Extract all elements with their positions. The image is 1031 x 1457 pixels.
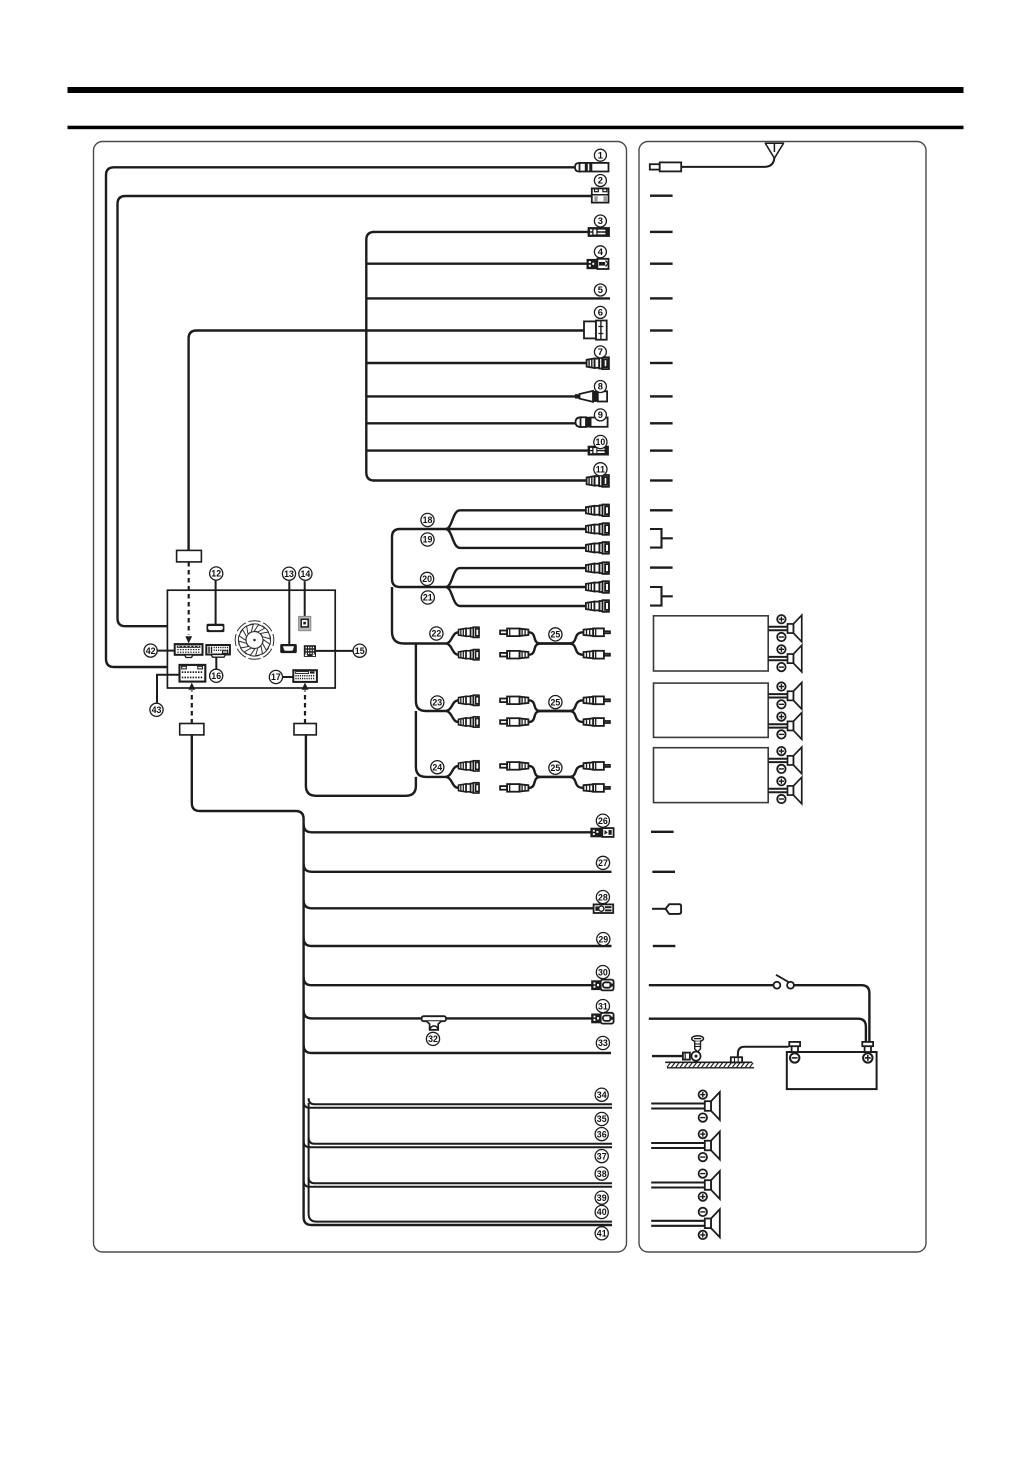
wire 9 (366, 422, 580, 424)
svg-text:15: 15 (355, 646, 365, 656)
connector 22 upper (459, 627, 479, 637)
lead mark for item 26 (651, 831, 674, 833)
label 22 (430, 627, 443, 640)
label 7 (594, 346, 606, 358)
connector 25 female upper (500, 697, 528, 705)
connector 14 (299, 581, 311, 631)
svg-text:22: 22 (432, 629, 442, 639)
svg-text:28: 28 (598, 892, 608, 902)
svg-text:36: 36 (597, 1129, 607, 1139)
speaker terminal top (699, 1169, 707, 1177)
connector 25 male lower (584, 651, 610, 659)
connector 25 male upper (584, 696, 610, 704)
svg-text:13: 13 (284, 569, 294, 579)
svg-text:2: 2 (598, 175, 603, 186)
wire 27 (304, 864, 612, 872)
wire 1 (antenna lead) (106, 167, 609, 667)
harness trunk down to branches 22-24 (392, 587, 446, 644)
svg-text:32: 32 (428, 1034, 438, 1044)
lead mark for item 6 (650, 329, 673, 331)
connector 2 (592, 188, 609, 202)
harness wire group 20/21 (392, 537, 586, 587)
wire fork 22 (446, 632, 459, 643)
label 36 (595, 1128, 608, 1141)
wire 3 (373, 231, 589, 233)
svg-text:34: 34 (597, 1090, 607, 1100)
svg-text:5: 5 (598, 284, 603, 295)
ring terminal (683, 1052, 701, 1061)
ground wire (652, 1055, 684, 1057)
harness wire group 18/19 (392, 529, 586, 537)
wire 33 (304, 1045, 611, 1053)
lead mark for item 4 (650, 263, 673, 265)
label 6 (594, 306, 606, 318)
label 19 (421, 533, 434, 546)
label 1 (594, 149, 606, 161)
header rule thick (68, 87, 964, 93)
label 13 (282, 567, 295, 580)
label 27 (596, 856, 609, 869)
lead mark for item 27 (652, 871, 675, 873)
label 18 (421, 513, 434, 526)
label 26 (596, 814, 609, 827)
chassis ground strip (665, 1062, 754, 1068)
plus terminal (777, 712, 785, 720)
svg-text:19: 19 (423, 535, 433, 545)
label 8 (594, 381, 606, 393)
plus terminal (777, 682, 785, 690)
svg-text:7: 7 (598, 346, 603, 357)
connector 15 (304, 645, 353, 657)
svg-text:14: 14 (301, 569, 311, 579)
connector 25 female upper (500, 629, 528, 637)
svg-text:25: 25 (551, 697, 561, 707)
battery positive post (865, 1046, 871, 1052)
wire 28 (304, 900, 594, 908)
speaker wires (amp 1 spk 1) (768, 626, 787, 628)
svg-text:37: 37 (597, 1151, 607, 1161)
plus terminal (777, 747, 785, 755)
connector 20b (586, 581, 609, 593)
speaker wires 34/35 (651, 1102, 705, 1104)
speaker terminal top (699, 1208, 707, 1216)
connector 17 (293, 670, 317, 682)
connector 25 female lower (500, 651, 528, 659)
lead mark for item 20 (650, 566, 673, 568)
speaker (amp 1 spk 1) (788, 615, 802, 642)
wire from switch to battery positive (794, 985, 870, 1042)
connector 25 male upper (584, 628, 610, 636)
speaker (amp 2 spk 2) (788, 713, 802, 740)
head unit (rear view) (167, 590, 335, 688)
connector 23 lower (459, 717, 479, 727)
connector 25 female upper (500, 762, 528, 770)
label 42 (144, 644, 157, 657)
label 39 (595, 1191, 608, 1204)
dashed arrow into connector 42 (188, 562, 190, 635)
battery ground lead and clamp (738, 1047, 789, 1058)
label 12 (210, 567, 223, 580)
plus terminal (777, 615, 785, 623)
svg-text:33: 33 (598, 1038, 608, 1048)
svg-text:40: 40 (597, 1207, 607, 1217)
label 32 (426, 1032, 439, 1045)
svg-text:21: 21 (423, 593, 433, 603)
connector 25 male lower (584, 718, 610, 726)
speaker (amp 3 spk 1) (788, 747, 802, 774)
label 17 (269, 670, 282, 683)
connector 20a (586, 562, 609, 574)
connector 12 (HDMI) (207, 581, 225, 633)
mounting screw (692, 1036, 704, 1052)
speaker wire pair 38/39 (309, 1177, 612, 1183)
connector 25 female lower (500, 718, 528, 726)
cable 25 (528, 766, 583, 777)
blank connector box (top) (177, 550, 202, 562)
svg-text:4: 4 (598, 246, 604, 257)
svg-text:16: 16 (211, 671, 221, 681)
amplifier box 3 (654, 748, 769, 803)
wire 11 (373, 479, 587, 481)
label 4 (594, 246, 606, 258)
connector 31 (spade terminal) (592, 1013, 614, 1024)
svg-text:43: 43 (152, 705, 162, 715)
connector 9 (576, 417, 608, 428)
wire 8 (366, 395, 579, 397)
label 3 (594, 215, 606, 227)
wire to label 42 (158, 650, 175, 652)
label 5 (594, 284, 606, 296)
battery negative post (792, 1046, 798, 1052)
amplifier box 1 (654, 616, 769, 671)
label 16 (210, 669, 223, 682)
connector 13 (280, 581, 297, 653)
label 15 (353, 644, 366, 657)
minus terminal (777, 700, 785, 708)
speaker wires 38/39 (651, 1181, 705, 1183)
connector 8 (575, 391, 607, 402)
plus terminal (777, 777, 785, 785)
svg-text:23: 23 (432, 698, 442, 708)
switch (774, 982, 781, 989)
speaker wires (amp 3 spk 2) (768, 788, 787, 790)
bullet tag for item 28 (652, 908, 666, 910)
svg-text:39: 39 (597, 1193, 607, 1203)
connector 6 (584, 321, 607, 340)
label 10 (594, 435, 607, 448)
wire 31 (304, 1010, 593, 1018)
cable 25 (528, 632, 583, 643)
connector 25 male upper (584, 762, 610, 770)
cable 25 (528, 700, 583, 711)
lead mark for item 11 (650, 479, 673, 481)
left panel frame (94, 142, 627, 1253)
speaker wires (amp 2 spk 1) (768, 693, 787, 695)
label 35 (595, 1112, 608, 1125)
label 43 (150, 703, 163, 716)
label 30 (596, 966, 609, 979)
speaker harness second conductor (309, 1103, 612, 1222)
svg-text:38: 38 (597, 1169, 607, 1179)
svg-text:17: 17 (271, 672, 281, 682)
speaker terminal top (699, 1090, 707, 1098)
connector 21 (586, 600, 609, 612)
wire 7 (366, 362, 587, 364)
label 37 (595, 1150, 608, 1163)
lead bracket for item 21 (650, 587, 673, 606)
svg-text:24: 24 (432, 762, 442, 772)
battery wire (item 31 circuit) (649, 1019, 866, 1042)
dashed arrow into connector 43 (191, 691, 193, 724)
svg-text:10: 10 (596, 437, 606, 447)
lead mark for item 5 (650, 297, 673, 299)
minus terminal (777, 730, 785, 738)
speaker wires (amp 3 spk 1) (768, 758, 787, 760)
label 9 (594, 409, 606, 421)
speaker (amp 3 spk 2) (788, 777, 802, 804)
connector 25 female lower (500, 784, 528, 792)
label 28 (596, 891, 609, 904)
speaker wires (amp 1 spk 2) (768, 656, 787, 658)
connector 18b (586, 523, 609, 535)
battery minus terminal mark (790, 1053, 799, 1062)
wire 6 (189, 331, 585, 551)
label 38 (595, 1167, 608, 1180)
svg-text:31: 31 (598, 1001, 608, 1011)
harness from bottom-left box down to wires 26-41 (192, 735, 612, 1225)
antenna symbol and lead (681, 147, 774, 167)
connector 7 (587, 357, 609, 369)
speaker wire pair 34/35 (309, 1098, 612, 1104)
connector 24 lower (459, 783, 479, 793)
label 31 (596, 1000, 609, 1013)
lead mark for item 7 (650, 362, 673, 364)
plus terminal (777, 645, 785, 653)
svg-text:27: 27 (598, 858, 608, 868)
label 25 (549, 761, 562, 774)
svg-text:20: 20 (422, 574, 432, 584)
speaker wires 36/37 (651, 1142, 705, 1144)
svg-text:1: 1 (598, 149, 603, 160)
label 29 (597, 933, 610, 946)
svg-text:42: 42 (146, 646, 156, 656)
cooling fan (235, 621, 274, 660)
svg-text:41: 41 (597, 1229, 607, 1239)
label 23 (431, 696, 444, 709)
connector 18a (586, 505, 609, 517)
lead mark for item 3 (650, 231, 673, 233)
label 14 (299, 567, 312, 580)
wire 2 (118, 196, 593, 626)
label 34 (595, 1088, 608, 1101)
wire to switch (649, 984, 774, 986)
label 25 (549, 696, 562, 709)
connector 24 upper (459, 761, 479, 771)
svg-text:11: 11 (596, 465, 605, 475)
battery plus terminal mark (863, 1053, 872, 1062)
label 11 (594, 463, 607, 476)
wire fork 23 (446, 700, 459, 711)
wire to label 43 (157, 675, 180, 703)
connector 42 (175, 644, 203, 657)
connector 22 lower (459, 650, 479, 660)
svg-text:25: 25 (551, 630, 561, 640)
label 20 (421, 572, 434, 585)
connector 3 (589, 228, 610, 236)
wire 5 (366, 297, 610, 299)
lead mark for item 18 (650, 509, 673, 511)
lead mark for item 2 (650, 195, 673, 197)
svg-text:3: 3 (598, 215, 603, 226)
svg-text:9: 9 (598, 409, 603, 420)
svg-text:29: 29 (598, 934, 608, 944)
speaker terminal bottom (699, 1231, 707, 1239)
wire 29 (304, 938, 612, 946)
wire 26 (304, 824, 592, 832)
speaker terminal bottom (699, 1153, 707, 1161)
label 33 (596, 1036, 609, 1049)
amplifier box 2 (654, 683, 769, 737)
minus terminal (777, 633, 785, 641)
svg-text:8: 8 (598, 381, 603, 392)
speaker (amp 2 spk 1) (788, 683, 802, 710)
speaker terminal top (699, 1130, 707, 1138)
speaker (705, 1092, 720, 1120)
speaker (705, 1209, 720, 1237)
connector 26 (591, 828, 613, 837)
wire to label 17 (283, 676, 293, 678)
connector 23 upper (459, 695, 479, 705)
connector 4 (587, 259, 608, 269)
right panel frame (639, 142, 926, 1253)
speaker terminal bottom (699, 1192, 707, 1200)
lead mark for item 10 (650, 449, 673, 451)
connector 30 (spade terminal) (592, 980, 614, 991)
connector 25 male lower (584, 784, 610, 792)
svg-text:6: 6 (598, 307, 603, 318)
lead mark for item 29 (653, 945, 676, 947)
svg-text:18: 18 (423, 515, 433, 525)
svg-text:30: 30 (598, 967, 608, 977)
speaker terminal bottom (699, 1113, 707, 1121)
fuse holder 32 (422, 1016, 446, 1030)
label 41 (595, 1227, 608, 1240)
connector 1 (antenna plug) (575, 163, 609, 172)
connector 16 (206, 645, 230, 669)
svg-text:35: 35 (597, 1114, 607, 1124)
header rule thin (68, 126, 964, 130)
speaker wires (amp 2 spk 2) (768, 723, 787, 725)
lead mark for item 9 (650, 422, 673, 424)
minus terminal (777, 795, 785, 803)
lead mark for item 8 (650, 395, 673, 397)
connector 28 (594, 904, 614, 913)
harness trunk (wires 3-11) (366, 232, 374, 481)
label 2 (594, 175, 606, 187)
label 24 (431, 761, 444, 774)
wire 30 (304, 977, 593, 985)
speaker (705, 1132, 720, 1160)
label 25 (549, 628, 562, 641)
wire 10 (366, 449, 588, 451)
label 40 (595, 1205, 608, 1218)
lead bracket for item 19 (650, 529, 673, 548)
wire 4 (366, 263, 588, 265)
connector 43 (180, 665, 206, 682)
blank connector box (bottom right) (294, 724, 316, 735)
blank connector box (bottom left) (180, 724, 204, 735)
label 21 (421, 591, 434, 604)
wire fork 24 (446, 766, 459, 777)
connector 11 (587, 475, 609, 487)
speaker (705, 1171, 720, 1199)
connector 10 (589, 447, 609, 455)
svg-text:25: 25 (551, 763, 561, 773)
speaker (amp 1 spk 2) (788, 645, 802, 672)
minus terminal (777, 765, 785, 773)
svg-text:12: 12 (211, 569, 221, 579)
svg-text:26: 26 (598, 816, 608, 826)
connector 19 (586, 542, 609, 554)
battery (787, 1052, 877, 1089)
antenna plug (item 1 mate) (650, 164, 660, 169)
dashed arrow into connector 17 (304, 691, 306, 724)
speaker wires 40/41 (651, 1220, 705, 1222)
speaker wire pair 36/37 (309, 1138, 612, 1144)
minus terminal (777, 663, 785, 671)
